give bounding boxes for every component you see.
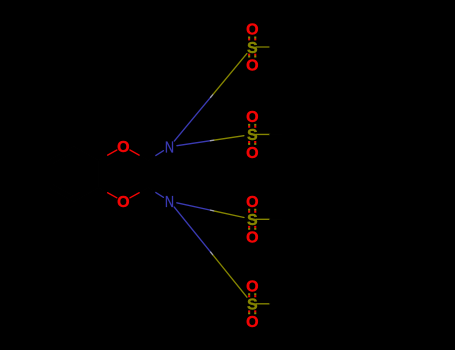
svg-text:S: S	[247, 212, 258, 229]
wire S2-CH3 black half	[270, 133, 282, 135]
sulfonyl group 3 : S=O double bond dashes	[249, 209, 255, 230]
wire N2-S4 bond blue half	[174, 207, 210, 252]
svg-text:O: O	[117, 194, 129, 211]
svg-text:O: O	[246, 314, 258, 331]
svg-text:S: S	[247, 297, 258, 314]
dioxine ring carbon half-bonds (near-black)	[99, 155, 156, 193]
svg-text:S: S	[247, 127, 258, 144]
svg-text:S: S	[247, 40, 258, 57]
wire N2-S3 bond olive half	[215, 211, 244, 217]
wire N1-S2 bond midpoint blend	[210, 139, 214, 142]
svg-text:O: O	[246, 109, 258, 126]
benzene ring C4a-C5-C6-C7-C8-C8a (near-black carbon skeleton)	[49, 146, 99, 201]
sulfonyl group 2 : S=O double bond dashes	[249, 124, 255, 145]
wire N1-S1 bond midpoint blend	[211, 94, 214, 97]
svg-text:O: O	[246, 145, 258, 162]
wire N1-S2 bond olive half	[215, 136, 244, 140]
wire N2-S3 bond midpoint blend	[210, 209, 214, 212]
wire N2-S3 bond blue half	[177, 203, 211, 210]
sulfonyl group 4 : S=O double bond dashes	[249, 293, 255, 314]
svg-text:O: O	[246, 278, 258, 295]
wire S2-CH3 olive half	[256, 133, 270, 135]
wire N1-S1 bond olive half	[213, 54, 247, 95]
wire S4-CH3 olive half	[256, 303, 270, 305]
wire S1-CH3 olive half	[256, 46, 270, 48]
wire O1-C8a red half	[108, 150, 117, 155]
wire S3-CH3 black half	[270, 218, 282, 220]
sulfonyl group 1 : S=O double bond dashes	[249, 37, 255, 58]
wire S4-CH3 black half	[270, 303, 282, 305]
wire C3-N2 blue half	[156, 193, 164, 198]
svg-text:O: O	[246, 194, 258, 211]
wire N2-S4 bond midpoint blend	[211, 252, 214, 255]
svg-text:O: O	[246, 22, 258, 39]
wire S1-CH3 black half	[270, 46, 282, 48]
svg-text:N: N	[165, 140, 174, 157]
svg-text:O: O	[246, 57, 258, 74]
svg-text:O: O	[246, 230, 258, 247]
wire N2-S4 bond olive half	[213, 255, 247, 297]
wire O1-C2 red half	[130, 150, 139, 155]
wire N1-S1 bond blue half	[174, 97, 210, 141]
svg-text:N: N	[165, 194, 174, 211]
wire C2-N1 blue half	[156, 151, 164, 156]
wire N1-S2 bond blue half	[177, 141, 210, 146]
wire O4-C4a red half	[108, 193, 117, 198]
wire O4-C3 red half	[130, 193, 139, 198]
svg-text:O: O	[117, 139, 129, 156]
wire S3-CH3 olive half	[256, 218, 270, 220]
